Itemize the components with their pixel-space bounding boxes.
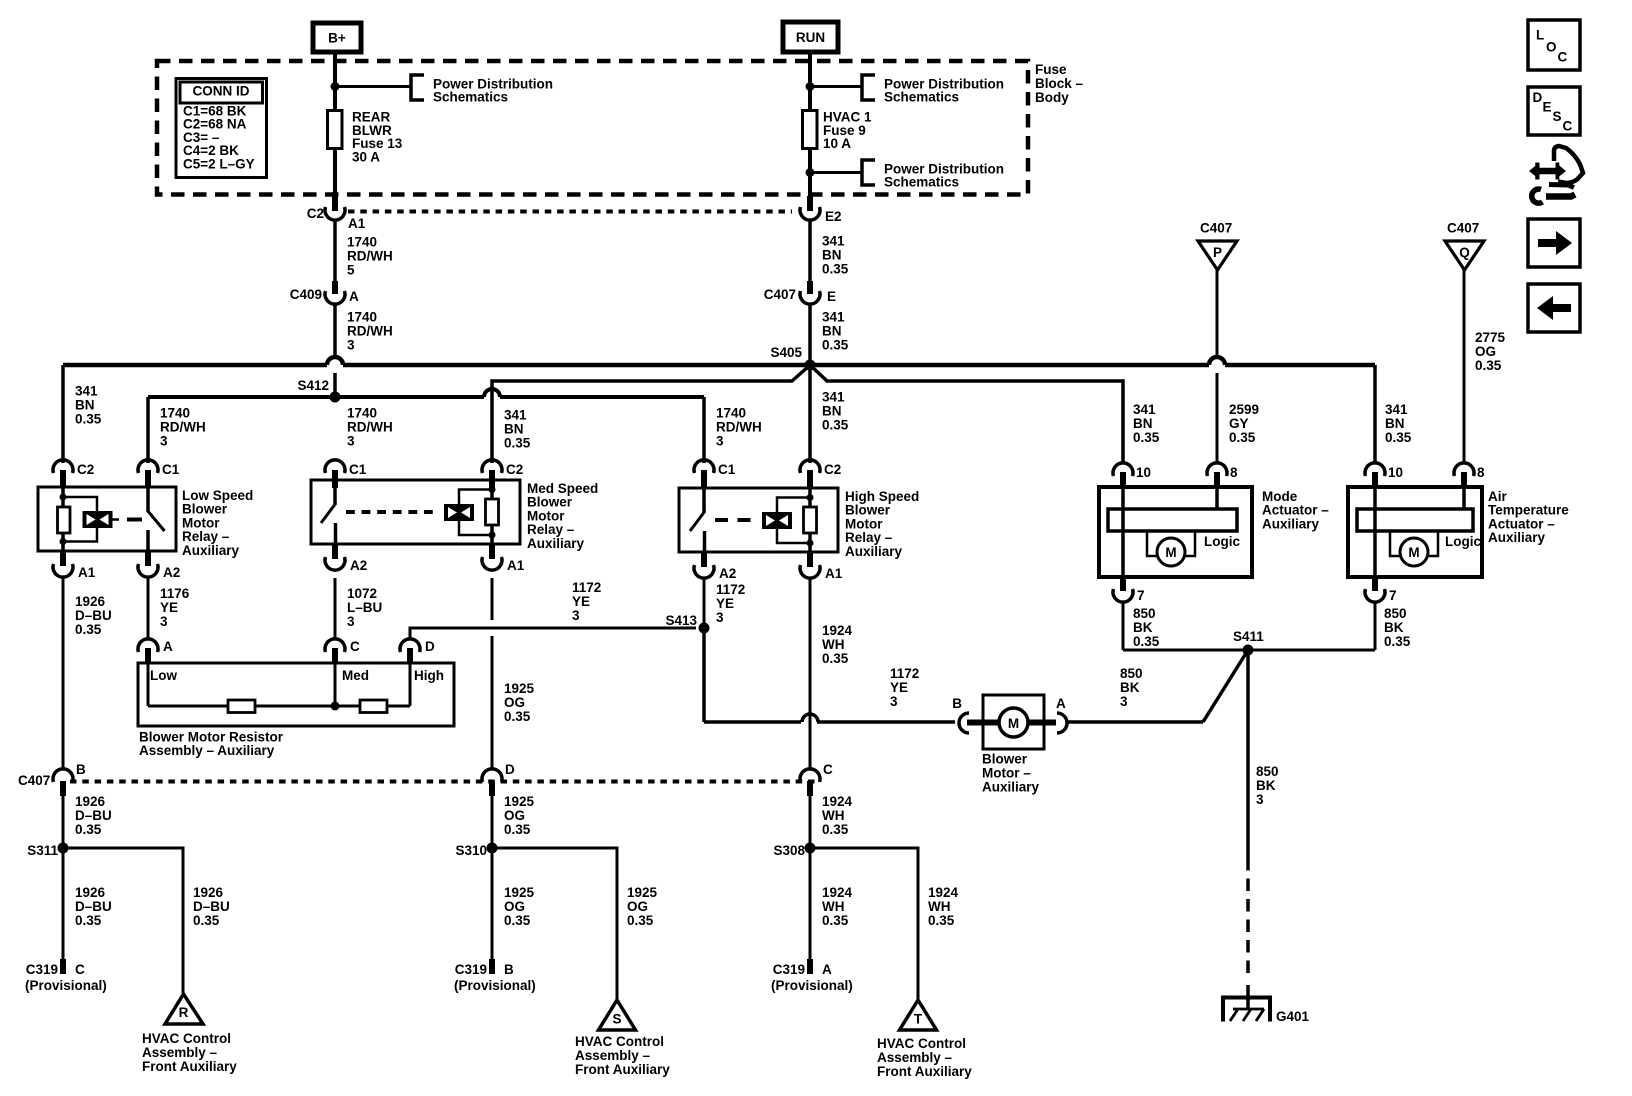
svg-text:RD/WH: RD/WH	[716, 420, 762, 435]
junction S405	[805, 360, 816, 371]
svg-text:OG: OG	[627, 899, 648, 914]
svg-text:10: 10	[1136, 465, 1151, 480]
svg-text:0.35: 0.35	[1385, 430, 1412, 445]
wire 850 BK (mode pin 7 to S411)	[1122, 602, 1125, 650]
relay K - High Speed Blower Motor Relay - Auxiliary (box)	[679, 488, 838, 552]
wire 341 BN down to air temp actuator pin 10	[1373, 365, 1377, 463]
svg-text:RD/WH: RD/WH	[347, 324, 393, 339]
svg-text:A: A	[1056, 696, 1066, 711]
svg-text:P: P	[1213, 245, 1222, 260]
svg-text:0.35: 0.35	[75, 412, 102, 427]
svg-text:BN: BN	[822, 404, 842, 419]
svg-text:1172: 1172	[572, 580, 601, 595]
low speed relay connector C2	[60, 470, 66, 488]
junction S411	[1243, 645, 1254, 656]
wire 1924 WH 0.35 (S308 to C319 A)	[809, 848, 812, 959]
svg-text:O: O	[1546, 40, 1557, 55]
svg-text:C407: C407	[1447, 221, 1479, 236]
svg-text:G401: G401	[1276, 1009, 1310, 1024]
svg-text:(Provisional): (Provisional)	[25, 978, 107, 993]
wire hop over C409 feed	[327, 357, 343, 365]
svg-text:High: High	[414, 668, 444, 683]
svg-text:WH: WH	[822, 899, 845, 914]
svg-text:3: 3	[160, 614, 168, 629]
wire 1926 D-BU 0.35 (S311 to C319 C)	[62, 848, 65, 959]
svg-text:S308: S308	[773, 843, 805, 858]
CONN ID table	[176, 79, 267, 178]
svg-text:S411: S411	[1233, 629, 1264, 644]
high speed relay connector A2	[701, 552, 707, 567]
svg-text:D: D	[1533, 90, 1543, 105]
svg-text:S: S	[1553, 109, 1562, 124]
svg-text:0.35: 0.35	[928, 913, 955, 928]
svg-text:3: 3	[347, 338, 355, 353]
svg-text:7: 7	[1389, 588, 1397, 603]
junction S311	[58, 843, 69, 854]
svg-text:BN: BN	[822, 248, 842, 263]
svg-text:C407: C407	[1200, 221, 1232, 236]
svg-text:(Provisional): (Provisional)	[771, 978, 853, 993]
wire 1926 D-BU 0.35 (C407 B to S311)	[62, 796, 65, 848]
svg-text:S: S	[612, 1012, 621, 1027]
svg-text:Auxiliary: Auxiliary	[982, 780, 1040, 795]
svg-text:0.35: 0.35	[822, 418, 849, 433]
wire to power distribution ref (lower right)	[810, 171, 862, 174]
svg-text:1924: 1924	[822, 794, 853, 809]
svg-text:1172: 1172	[890, 666, 919, 681]
connector C2 pin A1	[332, 196, 338, 211]
relay K - Low Speed Blower Motor Relay - Auxiliary (box)	[38, 487, 176, 551]
svg-text:3: 3	[347, 614, 355, 629]
svg-text:3: 3	[1256, 792, 1264, 807]
icon button DESC	[1528, 87, 1580, 135]
svg-text:S311: S311	[27, 843, 58, 858]
svg-text:2775: 2775	[1475, 330, 1506, 345]
wire 850 BK (air temp pin 7 to S411)	[1374, 602, 1377, 650]
mode actuator pin 8 connector	[1207, 463, 1227, 476]
svg-text:C2: C2	[824, 462, 841, 477]
svg-text:0.35: 0.35	[504, 709, 531, 724]
svg-text:3: 3	[890, 694, 898, 709]
svg-text:2599: 2599	[1229, 402, 1259, 417]
svg-text:B: B	[504, 962, 514, 977]
svg-text:10 A: 10 A	[823, 136, 851, 151]
med speed relay connector C1	[332, 470, 338, 488]
power node RUN	[783, 22, 838, 52]
svg-text:1924: 1924	[928, 885, 959, 900]
connector C407 pin B	[53, 769, 73, 782]
svg-text:0.35: 0.35	[75, 913, 102, 928]
svg-text:Q: Q	[1459, 245, 1470, 260]
svg-text:3: 3	[1120, 694, 1128, 709]
svg-text:S413: S413	[665, 613, 697, 628]
svg-text:341: 341	[1385, 402, 1408, 417]
mode actuator pin 10 connector	[1113, 463, 1133, 476]
svg-text:0.35: 0.35	[75, 822, 102, 837]
svg-text:1925: 1925	[627, 885, 658, 900]
wire 1172 YE 3 (S413 to blower motor B)	[702, 628, 706, 722]
bus 341 BN from S405 (main horizontal)	[63, 363, 327, 368]
svg-text:1926: 1926	[75, 594, 106, 609]
svg-text:A1: A1	[348, 216, 366, 231]
wire B+ to fuse 13	[333, 52, 337, 111]
mode actuator - Mode Actuator - Auxiliary (box)	[1099, 487, 1252, 577]
low speed relay internals: switch	[146, 487, 150, 511]
svg-text:(Provisional): (Provisional)	[454, 978, 536, 993]
svg-text:A1: A1	[507, 558, 525, 573]
wire 1740 RD/WH down to high speed relay C1	[702, 397, 706, 463]
connector C319 pin B (provisional)	[489, 959, 495, 974]
svg-text:0.35: 0.35	[1384, 634, 1411, 649]
blower motor connector A	[1057, 713, 1067, 733]
fuse F9 HVAC 1 10A	[803, 111, 818, 149]
svg-text:B: B	[76, 762, 86, 777]
svg-text:C: C	[75, 962, 85, 977]
mode actuator motor M	[1157, 538, 1185, 566]
svg-text:C319: C319	[773, 962, 805, 977]
reference bracket Power Distribution Schematics (upper right)	[862, 75, 875, 100]
air temp actuator internal logic bar	[1357, 509, 1473, 531]
svg-text:Front Auxiliary: Front Auxiliary	[877, 1064, 972, 1079]
svg-text:1926: 1926	[75, 794, 106, 809]
svg-text:5: 5	[347, 263, 355, 278]
med speed relay connector A2	[332, 544, 338, 559]
svg-text:Med: Med	[342, 668, 369, 683]
fuse block dashed box (Fuse Block - Body)	[157, 61, 1028, 195]
dotted interconnect line C407 (B-D-C)	[70, 780, 816, 784]
svg-text:C: C	[1563, 119, 1573, 134]
reference bracket Power Distribution Schematics (lower right)	[862, 160, 875, 185]
svg-text:Blower: Blower	[982, 752, 1028, 767]
svg-text:BN: BN	[1133, 416, 1153, 431]
triangle connector S	[599, 1000, 636, 1030]
svg-text:WH: WH	[822, 637, 845, 652]
resistor element 2	[360, 700, 387, 713]
svg-text:M: M	[1408, 545, 1419, 560]
svg-text:BK: BK	[1120, 680, 1140, 695]
junction S413	[699, 623, 710, 634]
svg-text:850: 850	[1133, 606, 1156, 621]
air temperature actuator - Air Temperature Actuator - Auxiliary (box)	[1348, 487, 1482, 577]
wire 1924 WH 0.35 (A1 high to connector C)	[809, 578, 812, 769]
svg-text:C407: C407	[764, 287, 796, 302]
svg-text:GY: GY	[1229, 416, 1249, 431]
svg-text:1925: 1925	[504, 885, 535, 900]
svg-text:Auxiliary: Auxiliary	[1488, 530, 1546, 545]
svg-text:Front Auxiliary: Front Auxiliary	[575, 1062, 670, 1077]
connector C407 pin D	[482, 769, 502, 782]
svg-text:M: M	[1165, 545, 1176, 560]
wire 341 BN 0.35 to S405	[808, 305, 812, 365]
svg-text:OG: OG	[504, 695, 525, 710]
svg-text:341: 341	[75, 384, 98, 399]
high speed relay internals: dashed actuation link	[715, 518, 755, 522]
air temp actuator motor M	[1400, 538, 1428, 566]
svg-text:OG: OG	[1475, 344, 1496, 359]
svg-text:341: 341	[822, 310, 845, 325]
svg-text:Fuse: Fuse	[1035, 62, 1067, 77]
bus 1740 RD/WH from S412	[148, 395, 484, 399]
svg-text:1925: 1925	[504, 794, 535, 809]
svg-text:C1: C1	[349, 462, 367, 477]
power node B+	[313, 23, 361, 52]
low speed relay connector A1	[60, 551, 66, 566]
connector C409 pin A	[332, 281, 338, 294]
wire 1740 RD/WH 5	[333, 221, 337, 282]
svg-text:Schematics: Schematics	[433, 90, 508, 105]
svg-text:R: R	[179, 1005, 189, 1020]
svg-text:C: C	[1558, 50, 1568, 65]
svg-text:1924: 1924	[822, 885, 853, 900]
relay K - Med Speed Blower Motor Relay - Auxiliary (box)	[311, 480, 520, 544]
wire 850 BK 3 (S411 to ground G401)	[1246, 650, 1250, 858]
svg-text:0.35: 0.35	[75, 622, 102, 637]
wire 1924 WH 0.35 (C407 C to S308)	[809, 796, 812, 848]
wire 1925 OG 0.35 (A1 med to connector D)	[491, 578, 494, 620]
high speed relay connector C2	[807, 470, 813, 488]
svg-text:BK: BK	[1133, 620, 1153, 635]
svg-text:0.35: 0.35	[627, 913, 654, 928]
svg-text:1740: 1740	[347, 406, 377, 421]
svg-text:0.35: 0.35	[504, 436, 531, 451]
svg-text:30 A: 30 A	[352, 149, 380, 164]
svg-text:1740: 1740	[160, 406, 190, 421]
svg-text:A2: A2	[350, 558, 367, 573]
wire 1172 YE 3 (A2 high to S413)	[703, 578, 706, 628]
wire fuse 9 to connector E2	[808, 149, 812, 198]
svg-text:10: 10	[1388, 465, 1403, 480]
wire 2775 OG 0.35 (C407 Q to air temp pin 8)	[1463, 268, 1466, 463]
junction on B+ feed	[331, 82, 340, 91]
svg-text:0.35: 0.35	[822, 262, 849, 277]
svg-text:C319: C319	[455, 962, 487, 977]
svg-text:C: C	[350, 639, 360, 654]
svg-text:HVAC Control: HVAC Control	[877, 1036, 966, 1051]
svg-text:BN: BN	[1385, 416, 1405, 431]
connector E2	[807, 196, 813, 211]
svg-text:0.35: 0.35	[504, 822, 531, 837]
svg-text:C5=2 L–GY: C5=2 L–GY	[183, 156, 255, 171]
svg-text:YE: YE	[890, 680, 908, 695]
svg-text:0.35: 0.35	[1475, 358, 1502, 373]
svg-text:0.35: 0.35	[822, 913, 849, 928]
wire 341 BN down to high speed relay C2	[808, 365, 812, 463]
svg-text:C407: C407	[18, 773, 50, 788]
svg-text:Auxiliary: Auxiliary	[182, 543, 240, 558]
low speed relay connector A2	[145, 551, 151, 566]
wire 341 BN 0.35 (E2 to C407)	[808, 221, 812, 282]
svg-text:0.35: 0.35	[193, 913, 220, 928]
svg-text:0.35: 0.35	[822, 651, 849, 666]
dotted interconnect line C2-E2	[348, 210, 792, 214]
svg-text:YE: YE	[716, 596, 734, 611]
svg-text:HVAC Control: HVAC Control	[142, 1031, 231, 1046]
svg-text:D–BU: D–BU	[75, 808, 112, 823]
svg-text:A2: A2	[719, 566, 736, 581]
wire 1925 OG 0.35 (C407 D to S310)	[491, 796, 494, 848]
svg-text:Logic: Logic	[1204, 534, 1240, 549]
svg-text:WH: WH	[928, 899, 951, 914]
junction on RUN feed (lower)	[806, 168, 815, 177]
high speed relay connector C1	[701, 470, 707, 488]
svg-text:L: L	[1536, 28, 1544, 43]
svg-text:0.35: 0.35	[822, 338, 849, 353]
wire hop over med relay C2 wire	[484, 389, 500, 397]
low speed relay internals: dashed actuation link	[127, 518, 142, 522]
fuse F13 REAR BLWR 30A	[328, 111, 343, 149]
svg-text:A1: A1	[825, 566, 843, 581]
svg-text:A1: A1	[78, 565, 96, 580]
wire 1740 RD/WH 3 to S412	[333, 305, 337, 357]
svg-text:C319: C319	[26, 962, 58, 977]
connector C319 pin C (provisional)	[60, 959, 66, 974]
svg-text:Schematics: Schematics	[884, 175, 959, 190]
resistor assembly internals	[147, 663, 150, 706]
svg-text:BK: BK	[1384, 620, 1404, 635]
wire hop over mode actuator pin8 wire	[1209, 357, 1225, 365]
wire 341 BN down to low speed relay C2	[61, 365, 65, 463]
wire RUN to fuse 9	[808, 52, 812, 111]
svg-text:1740: 1740	[347, 235, 377, 250]
svg-text:S405: S405	[770, 345, 802, 360]
svg-text:D: D	[505, 762, 515, 777]
wire 1924 WH branch to HVAC control T	[810, 848, 918, 1000]
svg-text:D–BU: D–BU	[75, 608, 112, 623]
svg-text:341: 341	[822, 234, 845, 249]
svg-text:Auxiliary: Auxiliary	[1262, 516, 1320, 531]
svg-text:850: 850	[1120, 666, 1143, 681]
svg-text:7: 7	[1137, 588, 1145, 603]
svg-text:3: 3	[347, 434, 355, 449]
triangle connector R	[165, 994, 203, 1024]
icon button LOC	[1528, 20, 1580, 70]
low speed relay internals: resistor	[58, 507, 71, 533]
svg-text:1176: 1176	[160, 586, 190, 601]
wire 341 BN S405 to med relay C2 and mode actuator pin 10	[492, 365, 810, 463]
wire to power distribution ref (upper right)	[810, 85, 862, 88]
med speed relay connector A1	[489, 544, 495, 559]
wire 1925 OG branch to HVAC control S	[492, 848, 617, 1000]
low speed relay connector C1	[145, 470, 151, 488]
svg-text:850: 850	[1256, 764, 1279, 779]
blower motor connector B	[959, 713, 969, 733]
svg-text:T: T	[914, 1012, 923, 1027]
svg-text:L–BU: L–BU	[347, 600, 382, 615]
svg-text:S310: S310	[455, 843, 487, 858]
svg-text:RD/WH: RD/WH	[347, 420, 393, 435]
icon hotlink double-arrow with wrench	[1529, 146, 1583, 203]
blower resistor connector A	[138, 639, 158, 652]
svg-text:0.35: 0.35	[1133, 430, 1160, 445]
svg-text:D–BU: D–BU	[75, 899, 112, 914]
svg-text:1740: 1740	[347, 310, 377, 325]
junction on RUN feed (upper)	[806, 82, 815, 91]
junction S308	[805, 843, 816, 854]
svg-text:Auxiliary: Auxiliary	[845, 544, 903, 559]
svg-text:0.35: 0.35	[504, 913, 531, 928]
svg-text:BN: BN	[75, 398, 95, 413]
svg-text:1172: 1172	[716, 582, 745, 597]
svg-text:BN: BN	[822, 324, 842, 339]
svg-text:3: 3	[716, 434, 724, 449]
med speed relay internals: switch	[333, 480, 337, 504]
wire 1925 OG 0.35 (S310 to C319 B)	[491, 848, 494, 959]
wire 1172 YE 3 (resistor D to S413)	[410, 628, 696, 640]
svg-text:Auxiliary: Auxiliary	[527, 536, 585, 551]
svg-text:RD/WH: RD/WH	[160, 420, 206, 435]
svg-text:Assembly –: Assembly –	[575, 1048, 651, 1063]
svg-text:E2: E2	[825, 209, 842, 224]
svg-text:Block –: Block –	[1035, 76, 1084, 91]
svg-text:0.35: 0.35	[1133, 634, 1160, 649]
wire 1926 D-BU branch to HVAC control R	[63, 848, 183, 993]
svg-text:D–BU: D–BU	[193, 899, 230, 914]
svg-text:D: D	[425, 639, 435, 654]
connector C407 pin C	[800, 769, 820, 782]
svg-text:A: A	[822, 962, 832, 977]
med speed relay internals: coil + branch	[444, 504, 474, 521]
svg-text:1924: 1924	[822, 623, 853, 638]
low speed relay internals: wires to resistor	[61, 487, 65, 507]
svg-text:BN: BN	[504, 422, 524, 437]
svg-text:C2: C2	[307, 206, 324, 221]
svg-text:C2: C2	[506, 462, 523, 477]
svg-text:RUN: RUN	[796, 30, 825, 45]
wire 1740 RD/WH down to low speed relay C1	[146, 397, 150, 463]
wire 1926 D-BU 0.35 (A1 low to C407 B)	[62, 578, 65, 769]
triangle connector T	[900, 1000, 937, 1030]
svg-text:OG: OG	[504, 808, 525, 823]
mode actuator internal logic bar	[1108, 509, 1237, 531]
air temp actuator pin 8 connector	[1454, 463, 1474, 476]
svg-text:Logic: Logic	[1445, 534, 1481, 549]
svg-text:CONN ID: CONN ID	[193, 84, 250, 99]
low speed relay internals: coil + branch	[60, 494, 67, 501]
air temp actuator pin 7 connector	[1372, 577, 1378, 591]
svg-text:OG: OG	[504, 899, 525, 914]
svg-text:Assembly –: Assembly –	[142, 1045, 218, 1060]
svg-text:Body: Body	[1035, 90, 1069, 105]
svg-text:S412: S412	[297, 378, 329, 393]
blower resistor connector D	[400, 639, 420, 652]
wire 850 BK bus at S411	[1123, 649, 1375, 652]
high speed relay internals: resistor	[804, 507, 817, 533]
resistor element 1	[228, 700, 255, 713]
svg-text:Low: Low	[150, 668, 177, 683]
connector C319 pin A (provisional)	[807, 959, 813, 974]
svg-text:YE: YE	[160, 600, 178, 615]
wire to power distribution ref	[335, 85, 411, 88]
svg-text:0.35: 0.35	[1229, 430, 1256, 445]
svg-text:8: 8	[1477, 465, 1485, 480]
wire fuse 13 to connector C2	[333, 149, 337, 198]
svg-text:1740: 1740	[716, 406, 746, 421]
reference bracket Power Distribution Schematics (left)	[411, 75, 424, 100]
wire 2599 GY 0.35 (C407 P to mode actuator pin 8)	[1216, 268, 1219, 357]
blower motor - Blower Motor - Auxiliary (box)	[983, 695, 1044, 749]
svg-text:Schematics: Schematics	[884, 90, 959, 105]
icon button back arrow	[1528, 284, 1580, 332]
svg-text:WH: WH	[822, 808, 845, 823]
high speed relay connector A1	[807, 552, 813, 567]
svg-text:850: 850	[1384, 606, 1407, 621]
blower resistor connector C	[325, 639, 345, 652]
svg-text:1926: 1926	[75, 885, 106, 900]
svg-text:Motor –: Motor –	[982, 766, 1031, 781]
mode actuator pin 7 connector	[1120, 577, 1126, 591]
svg-text:1926: 1926	[193, 885, 224, 900]
med speed relay connector C2	[489, 470, 495, 488]
